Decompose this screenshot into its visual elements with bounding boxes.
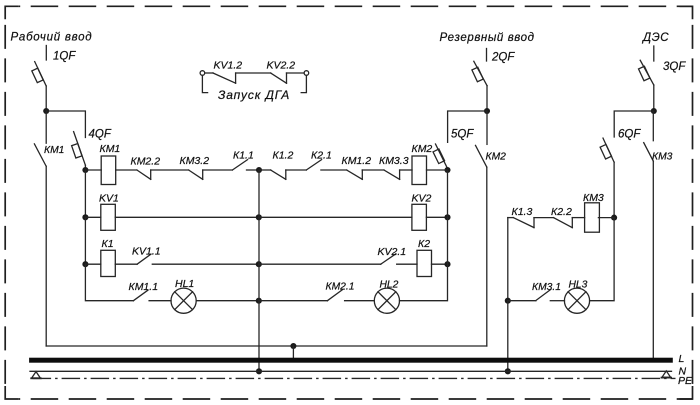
svg-text:К1.2: К1.2	[273, 150, 294, 162]
wire KM3 coil to node	[598, 217, 614, 219]
node row3 center	[256, 261, 262, 267]
coil KM1	[101, 156, 116, 185]
svg-text:К2: К2	[418, 238, 430, 250]
wire KV1.1 to center column	[152, 263, 258, 265]
wire node2 to 5QF branch	[448, 111, 487, 142]
wire input3 stub	[653, 46, 655, 61]
coil K1	[101, 250, 116, 276]
coil KM2	[412, 156, 427, 185]
contact K2.2	[554, 218, 573, 228]
wire KM1 upper	[45, 111, 47, 143]
node right branch to N	[505, 368, 511, 374]
coil K2	[417, 250, 432, 276]
breaker 5QF	[433, 144, 447, 169]
svg-text:PE: PE	[678, 375, 693, 387]
node KM3 coil row right	[611, 215, 617, 221]
contact KM2.1	[327, 290, 342, 301]
wire KM3.1 to HL3	[550, 300, 564, 302]
wire row1: node to KM1 coil	[85, 169, 101, 171]
svg-text:KV1: KV1	[99, 193, 119, 205]
wire 1QF to node1	[45, 86, 47, 111]
node row3 left	[82, 261, 88, 267]
wire KM1 feeder down	[45, 166, 47, 346]
wire 4QF to row1	[84, 165, 86, 170]
lamp HL2	[374, 288, 399, 313]
wire KV1 to center column	[115, 216, 258, 218]
svg-text:Резервный ввод: Резервный ввод	[440, 32, 535, 44]
svg-text:КМ3: КМ3	[583, 192, 604, 204]
node DGA terminal right	[304, 71, 309, 76]
node input2 junction	[484, 108, 490, 114]
wire K2.2 to KM3 coil	[572, 217, 584, 219]
coil KV2	[412, 204, 427, 230]
contact K2.1	[306, 160, 321, 170]
wire 5QF to row1	[447, 169, 449, 171]
wire HL3 to 6QF column corner	[590, 218, 615, 301]
node row2 center	[256, 214, 262, 220]
svg-text:КМ2.2: КМ2.2	[131, 156, 161, 168]
wire right column row2-row3	[447, 170, 449, 264]
svg-text:HL3: HL3	[569, 279, 588, 290]
wire KV1.2 to KV2.2	[236, 72, 271, 74]
contact KV1.2	[213, 73, 236, 83]
svg-text:KV1.1: KV1.1	[132, 246, 161, 258]
breaker 1QF	[32, 62, 46, 86]
contact KM1.2	[347, 170, 363, 179]
node row2 right	[444, 214, 450, 220]
svg-text:KV2: KV2	[412, 193, 432, 205]
breaker 6QF	[600, 138, 614, 162]
contact K1.2	[271, 170, 286, 179]
bracket DGA right	[301, 76, 306, 93]
wire input1 stub	[45, 46, 47, 61]
svg-text:К1.3: К1.3	[512, 206, 533, 218]
node center column to N	[256, 368, 262, 374]
contact KV1.1	[137, 254, 151, 264]
svg-text:5QF: 5QF	[451, 129, 474, 141]
wire center node to K1.2	[259, 169, 271, 171]
svg-text:КМ3: КМ3	[652, 152, 673, 163]
svg-text:6QF: 6QF	[618, 129, 641, 141]
contact KM3 main	[644, 143, 654, 162]
svg-text:КМ3.3: КМ3.3	[379, 155, 409, 167]
svg-text:KV2.2: KV2.2	[267, 60, 296, 72]
wire KM3.2 to K1.1	[203, 169, 233, 171]
wire KM1.2 to KM3.3	[362, 169, 384, 171]
svg-text:КМ3.1: КМ3.1	[532, 282, 561, 293]
node HL3 row left	[505, 298, 511, 304]
contact KM1 main	[34, 144, 46, 166]
contact KM2 main	[476, 145, 487, 167]
wire 3QF to node3	[653, 85, 655, 111]
svg-text:КМ2.1: КМ2.1	[326, 282, 355, 293]
svg-text:КМ2: КМ2	[412, 143, 433, 155]
coil KM3	[585, 203, 600, 232]
wire HL2 to right column corner	[400, 264, 448, 301]
wire row3 center to KV2.1	[259, 263, 381, 265]
contact KM3.3	[384, 170, 400, 179]
wire 4QF column row1-row2	[84, 170, 86, 217]
ground symbol right	[662, 371, 671, 377]
wire node3 to 6QF branch	[614, 111, 654, 137]
svg-text:Рабочий ввод: Рабочий ввод	[11, 32, 93, 44]
wire KM3 upper	[652, 111, 654, 141]
wire K2.1 to KM1.2	[321, 169, 347, 171]
node row1 center	[256, 167, 262, 173]
breaker 3QF	[639, 60, 654, 85]
svg-text:КМ1: КМ1	[44, 145, 64, 156]
svg-text:Запуск ДГА: Запуск ДГА	[218, 88, 290, 102]
wire L collector bottom	[46, 345, 487, 347]
node row3 right	[444, 261, 450, 267]
svg-text:КМ1.1: КМ1.1	[129, 281, 159, 293]
wire stub to L bus	[292, 346, 294, 359]
contact KV2.1	[381, 254, 396, 264]
wire K1.3 to K2.2	[534, 217, 554, 219]
svg-text:КМ2: КМ2	[486, 152, 507, 163]
contact K1.1	[232, 160, 247, 170]
svg-text:3QF: 3QF	[663, 61, 686, 73]
wire KM2 feeder down	[486, 167, 488, 346]
wire KM2.2 to KM3.2	[151, 169, 189, 171]
wire node1 to 4QF branch	[46, 111, 85, 138]
contact KV2.2	[271, 73, 287, 83]
node input1 junction	[43, 108, 49, 114]
svg-text:КМ3.2: КМ3.2	[180, 155, 210, 167]
svg-text:КМ1.2: КМ1.2	[342, 155, 372, 167]
wire DGA left	[205, 72, 213, 74]
bracket DGA left	[202, 76, 207, 93]
contact KM3.2	[189, 170, 203, 179]
wire KM1.1 to HL1	[149, 300, 171, 302]
wire right branch column down	[507, 218, 509, 301]
wire input2 stub	[486, 49, 488, 62]
node input3 junction	[651, 108, 657, 114]
svg-text:ДЭС: ДЭС	[641, 32, 669, 44]
wire K2 to right column	[432, 263, 448, 265]
svg-text:1QF: 1QF	[53, 51, 76, 63]
svg-text:HL2: HL2	[380, 280, 399, 291]
node bottom collector	[290, 343, 296, 349]
wire KV2.1 to K2	[397, 263, 417, 265]
svg-text:KV1.2: KV1.2	[214, 60, 243, 72]
svg-text:К2.1: К2.1	[311, 150, 332, 162]
contact KM1.1	[133, 290, 148, 301]
wire center column down	[258, 170, 260, 371]
wire right branch column to N	[507, 301, 509, 372]
wire KM2.1 to HL2	[345, 300, 375, 302]
node row1 left	[82, 167, 88, 173]
svg-text:L: L	[679, 353, 685, 365]
contact KM3.1	[536, 289, 551, 300]
contact KM2.2	[137, 170, 151, 179]
wire row2 center to KV2	[259, 216, 412, 218]
wire K1.2 to K2.1	[286, 169, 307, 171]
wire KM1 coil to KM2.2	[116, 169, 137, 171]
wire KM3.3 to KM2 coil	[400, 169, 412, 171]
svg-text:KV2.1: KV2.1	[378, 246, 407, 258]
wire K1.3 branch corner	[508, 217, 514, 219]
breaker 4QF	[72, 132, 86, 166]
svg-text:КМ1: КМ1	[100, 143, 121, 155]
bus L (thick)	[29, 358, 673, 363]
lamp HL3	[564, 288, 589, 313]
wire DGA right	[287, 72, 305, 74]
coil KV1	[101, 204, 116, 230]
wire K1 to KV1.1	[115, 263, 137, 265]
lamp HL1	[171, 288, 196, 313]
node DGA terminal left	[200, 71, 205, 76]
svg-text:К2.2: К2.2	[551, 206, 572, 218]
wire KM3 feeder down	[652, 161, 654, 358]
wire KV2 to right column	[426, 216, 447, 218]
breaker 2QF	[472, 61, 487, 86]
wire row3 left to K1	[85, 263, 100, 265]
wire 6QF down to KM3 coil row	[613, 162, 615, 217]
wire KM2 coil to node	[427, 169, 448, 171]
bus N	[30, 370, 672, 372]
svg-text:4QF: 4QF	[89, 129, 112, 141]
contact K1.3	[513, 218, 534, 228]
wire 4QF column row3-row4 corner	[85, 264, 133, 301]
bus PE (dash-dot)	[33, 377, 676, 379]
wire KM2 upper	[486, 111, 488, 144]
node row2 left	[82, 214, 88, 220]
wire HL3 row left to KM3.1	[508, 300, 536, 302]
wire 4QF column row2-row3	[84, 217, 86, 264]
ground symbol left	[32, 372, 41, 378]
wire 2QF to node2	[486, 86, 488, 111]
svg-text:2QF: 2QF	[491, 52, 515, 64]
wire row2 left to KV1	[85, 216, 100, 218]
node row4 center	[256, 298, 262, 304]
svg-text:HL1: HL1	[175, 278, 194, 290]
wire K1.1 to center node	[247, 169, 260, 171]
wire HL1 to center column	[196, 300, 259, 302]
svg-text:К1: К1	[102, 238, 114, 250]
wire row4 center to KM2.1	[259, 300, 328, 302]
svg-text:К1.1: К1.1	[233, 150, 254, 162]
node row1 right	[444, 167, 450, 173]
